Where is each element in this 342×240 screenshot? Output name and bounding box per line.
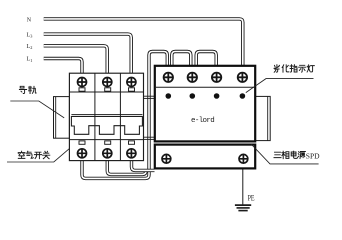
svg-text:2: 2 (30, 45, 32, 50)
PE wire (242, 170, 244, 205)
DIN rail left bracket (54, 97, 70, 139)
wire L3 (44, 34, 132, 74)
SPD strip terminal screws (162, 154, 248, 163)
wire pole1 to SPD terminal1 (U below breaker, riser, loop over SPD) (82, 52, 167, 179)
SPD terminal screws top (164, 73, 247, 82)
breaker top notches (79, 88, 135, 91)
leader line daogui (10, 101, 64, 118)
svg-text:PE: PE (248, 193, 255, 203)
svg-text:1: 1 (30, 58, 32, 63)
SPD main body (155, 66, 255, 142)
label kongqikaiguan (air switch) (18, 151, 50, 159)
svg-text:3: 3 (30, 33, 32, 38)
SPD indicator dots (166, 93, 246, 99)
breaker top row line (69, 91, 143, 93)
DIN rail segment in gap (144, 96, 155, 139)
SPD bottom strip (155, 145, 255, 169)
ground symbol (235, 205, 251, 211)
wire loop SPD terminal2 (172, 52, 191, 67)
wire L2 (44, 46, 107, 74)
wire loop SPD terminal3 (196, 52, 216, 67)
label sanxiangdianyuan SPD (three-phase power SPD) (274, 151, 305, 158)
svg-text:e-lord: e-lord (191, 117, 214, 125)
breaker bottom notches (79, 141, 135, 144)
breaker terminal screws top (78, 78, 136, 87)
breaker toggle band (71, 115, 142, 135)
breaker pole dividers (95, 73, 121, 160)
svg-text:N: N (27, 17, 32, 23)
label liehuazhishideng (degradation indicator light) (274, 65, 314, 73)
leader line sanxiangdianyuanSPD (251, 144, 318, 164)
wire pole2 stub (107, 160, 146, 175)
breaker (air switch) body (69, 73, 143, 160)
SPD internal line under terminals (156, 86, 254, 88)
svg-text:SPD: SPD (306, 151, 320, 160)
wire pole3 stub (132, 160, 155, 171)
breaker bottom row line (69, 139, 143, 141)
wire L1 (44, 59, 82, 75)
label daogui (rail) (19, 86, 36, 93)
DIN rail right tab (256, 96, 271, 140)
leader line kongqikaiguan (7, 149, 69, 162)
breaker terminal screws bottom (78, 149, 136, 158)
leader line liehuazhishideng (246, 79, 314, 93)
wire N (44, 19, 243, 66)
